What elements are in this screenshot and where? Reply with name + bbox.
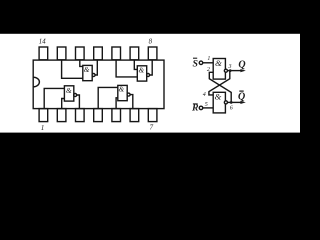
svg-text:4: 4 bbox=[203, 91, 206, 98]
pin 1 bbox=[39, 109, 48, 122]
latch NAND gate U2b (bottom) bbox=[213, 92, 227, 113]
wire U1c output to pin 8 bbox=[150, 60, 153, 75]
input terminal circle S bbox=[199, 61, 203, 65]
cross wire U2b out to U2a input pin 2 bbox=[209, 72, 231, 102]
NAND gate U1d (pins 12,13 -> 11) bbox=[83, 65, 95, 80]
NAND gate U1b (pins 4,5 -> 6) bbox=[118, 85, 130, 100]
IC U1 DIP-14 body bbox=[33, 60, 164, 109]
wire pin1 to U1a input A bbox=[44, 88, 64, 108]
svg-text:&: & bbox=[215, 58, 222, 68]
svg-text:&: & bbox=[84, 65, 90, 74]
wire U1a output to pin 3 bbox=[77, 95, 80, 108]
wire U1b output to pin 6 bbox=[130, 95, 133, 109]
pin 12 bbox=[76, 47, 85, 60]
junction dot at U2a output bbox=[229, 69, 232, 72]
NAND gate U1c (pins 9,10 -> 8) bbox=[137, 66, 149, 81]
pin 9 bbox=[130, 47, 139, 60]
svg-text:7: 7 bbox=[150, 123, 154, 131]
svg-text:6: 6 bbox=[230, 105, 233, 111]
arrowhead Q bbox=[240, 69, 245, 72]
svg-text:S: S bbox=[192, 58, 198, 69]
svg-text:14: 14 bbox=[39, 38, 46, 45]
latch NAND gate U2a (top) bbox=[213, 59, 227, 80]
svg-text:&: & bbox=[214, 91, 221, 101]
white content band bbox=[0, 34, 300, 133]
svg-text:2: 2 bbox=[207, 67, 210, 73]
wire U2a output pin 3 to Q arrow bbox=[228, 70, 242, 72]
svg-text:&: & bbox=[66, 86, 72, 95]
svg-text:8: 8 bbox=[149, 38, 153, 45]
wire U1d output to pin 11 bbox=[95, 60, 97, 75]
svg-text:1: 1 bbox=[41, 124, 45, 132]
svg-text:1: 1 bbox=[207, 56, 210, 62]
pin 14 bbox=[39, 47, 48, 60]
NAND gate U1a (pins 1,2 -> 3) bbox=[64, 86, 76, 101]
svg-text:3: 3 bbox=[228, 64, 232, 70]
pin 13 bbox=[57, 47, 66, 60]
wire pin13 to U1d input B bbox=[62, 60, 83, 78]
wire pin4 to U1b input A bbox=[98, 87, 118, 108]
wire pin2 to U1a input B bbox=[62, 99, 65, 109]
svg-text:&: & bbox=[138, 65, 144, 74]
pin 2 bbox=[57, 109, 66, 122]
svg-text:5: 5 bbox=[205, 102, 208, 108]
wire R to U2b pin 5 bbox=[203, 107, 213, 109]
pin 5 bbox=[112, 109, 121, 122]
wire U2b output pin 6 to Qbar arrow bbox=[228, 101, 242, 103]
wire pin12 to U1d input A bbox=[80, 60, 83, 66]
svg-text:Q: Q bbox=[238, 59, 245, 70]
wire pin5 to U1b input B bbox=[116, 98, 118, 109]
pin 3 bbox=[76, 109, 85, 122]
input terminal circle R bbox=[199, 106, 203, 110]
svg-text:&: & bbox=[119, 85, 125, 94]
index notch bbox=[33, 77, 39, 87]
cross wire U2a out to U2b input pin 4 bbox=[209, 71, 230, 95]
pin 11 bbox=[94, 47, 103, 60]
pin 6 bbox=[130, 109, 139, 122]
wire pin9 to U1c input A bbox=[134, 60, 137, 69]
wire S to U2a pin 1 bbox=[203, 62, 213, 64]
pin 7 bbox=[148, 109, 157, 122]
svg-text:Q: Q bbox=[238, 92, 245, 103]
wire pin10 to U1c input B bbox=[116, 60, 137, 77]
pin 8 bbox=[148, 47, 157, 60]
arrowhead Qbar bbox=[240, 101, 245, 104]
pin 10 bbox=[112, 47, 121, 60]
pin 4 bbox=[94, 109, 103, 122]
junction dot at U2b output bbox=[230, 101, 233, 104]
